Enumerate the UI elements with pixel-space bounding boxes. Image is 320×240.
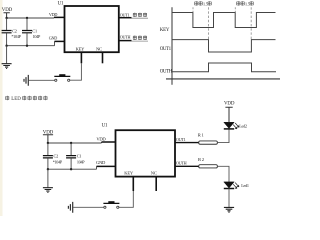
annotation: long press 1.5s (first)	[195, 1, 212, 6]
wire: R2 to LED1 anode	[217, 166, 229, 182]
pin stub KEY	[132, 177, 134, 191]
svg-text:OUT1: OUT1	[160, 47, 172, 52]
ground (earth) under LED1	[224, 207, 234, 212]
svg-text:OUTH: OUTH	[176, 161, 187, 166]
pin stub OUTH with note line	[119, 40, 131, 42]
pin stub U1 GND	[55, 40, 65, 42]
pin stub U1 VDD	[54, 16, 65, 18]
pin stub NC	[155, 177, 157, 191]
waveform OUTH	[172, 63, 276, 72]
svg-text:C1: C1	[32, 28, 37, 33]
pin stub NC	[102, 53, 104, 64]
pin stub KEY	[80, 53, 82, 64]
svg-text:VDD: VDD	[49, 12, 57, 17]
wire: switch to side ground	[73, 206, 104, 208]
svg-text:104P: 104P	[33, 34, 41, 39]
wire: KEY to switch	[119, 191, 133, 207]
ground (rotated) at switch	[24, 75, 28, 86]
svg-text:LED: LED	[11, 97, 21, 102]
capacitor C2 (bottom ckt)	[43, 143, 63, 169]
capacitor C1	[22, 18, 41, 46]
svg-text:*104P: *104P	[11, 34, 21, 39]
svg-text:R1: R1	[198, 133, 205, 138]
capacitor C2	[2, 18, 22, 46]
svg-text:R2: R2	[198, 157, 205, 162]
svg-text:KEY: KEY	[160, 28, 170, 33]
svg-text:OUT1: OUT1	[176, 137, 186, 142]
note: OUTH active-high (CJK)	[133, 36, 147, 40]
LED D1	[224, 182, 249, 189]
pin stub OUT1	[175, 142, 199, 144]
ground (earth) symbol	[2, 46, 12, 69]
LED D2	[224, 122, 247, 129]
svg-text:U1: U1	[102, 123, 108, 128]
pin stub OUT1 with note line	[119, 17, 131, 19]
wire: ground rail to U1.GND	[7, 41, 55, 45]
note: OUT1 active-low (CJK)	[133, 13, 147, 17]
node: junction C1 bottom	[70, 168, 72, 170]
pin stub OUTH	[175, 165, 199, 167]
svg-text:*104P: *104P	[53, 159, 63, 164]
svg-text:Led2: Led2	[239, 123, 247, 128]
node: junction C1 bottom	[26, 45, 28, 47]
wire: ground rail to U1.GND	[48, 166, 97, 169]
pin stub U1 VDD	[102, 141, 116, 143]
node: junction VDD/C2	[5, 17, 7, 19]
svg-text:U1: U1	[58, 1, 64, 6]
svg-text:C1: C1	[77, 154, 82, 159]
node: junction gnd rail left	[5, 45, 7, 47]
power flag VDD (LED2)	[224, 101, 235, 122]
power flag VDD (top-left)	[2, 8, 13, 18]
axis horizontal	[166, 78, 280, 80]
IC U1 (bottom)	[102, 123, 175, 176]
dashed marker line 1	[208, 7, 210, 39]
wire: VDD rail to U1.VDD	[7, 16, 65, 19]
power flag VDD (left)	[43, 130, 54, 143]
svg-text:NC: NC	[151, 171, 157, 176]
waveform KEY	[172, 13, 276, 28]
wire: R1 to LED2 cathode	[217, 129, 229, 142]
svg-text:Led1: Led1	[241, 183, 249, 188]
svg-text:OUTH: OUTH	[120, 35, 131, 40]
dashed marker line 2	[250, 7, 252, 39]
capacitor C1 (bottom ckt)	[66, 143, 85, 169]
svg-text:NC: NC	[96, 46, 102, 51]
pushbutton S2	[103, 201, 119, 208]
dashed stub at first press	[192, 7, 194, 12]
node: junction C1 top	[70, 142, 72, 144]
wire: KEY to switch	[70, 63, 81, 80]
ground (rotated) at switch	[68, 202, 72, 213]
resistor R2	[198, 157, 217, 168]
caption text (CJK): LED circuit reference	[6, 96, 48, 102]
dashed stub at second press	[234, 7, 236, 12]
svg-text:KEY: KEY	[124, 171, 134, 176]
svg-text:104P: 104P	[77, 159, 85, 164]
wire: switch to side ground	[29, 79, 55, 81]
pin stub U1 GND	[97, 165, 116, 167]
left edge cream strip	[0, 0, 3, 216]
annotation: long press 1.5s (second)	[237, 1, 254, 6]
ground (earth) symbol	[43, 169, 53, 192]
svg-text:GND: GND	[96, 160, 106, 165]
wire: LED1 cathode to ground	[228, 188, 230, 207]
axis vertical	[171, 7, 173, 85]
svg-text:GND: GND	[49, 36, 57, 41]
node: junction C1 top	[26, 17, 28, 19]
wire: VDD rail to U1.VDD	[48, 142, 116, 143]
svg-text:VDD: VDD	[96, 136, 106, 141]
svg-text:VDD: VDD	[224, 101, 235, 106]
node: junction VDD/C2	[47, 142, 49, 144]
waveform OUT1	[172, 40, 276, 52]
resistor R1	[198, 133, 218, 145]
svg-text:OUT1: OUT1	[120, 12, 130, 17]
pushbutton S1	[54, 74, 70, 81]
node: junction gnd rail left	[47, 168, 49, 170]
svg-text:C2: C2	[54, 154, 59, 159]
svg-text:KEY: KEY	[76, 46, 86, 51]
svg-text:C2: C2	[12, 28, 17, 33]
svg-text:OUTH: OUTH	[160, 69, 173, 74]
IC U1 (top)	[58, 1, 119, 52]
